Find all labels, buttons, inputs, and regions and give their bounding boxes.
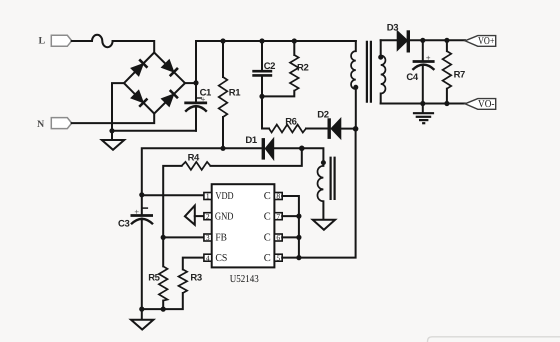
svg-text:GND: GND [215,211,234,222]
wire N terminal to bridge bottom corner [72,114,155,124]
svg-text:VO+: VO+ [478,36,495,47]
svg-text:FB: FB [215,233,227,244]
svg-text:R4: R4 [188,152,200,163]
ground (IC, open triangle) [131,320,153,330]
svg-text:C: C [264,211,271,222]
wire pin 6 to bus [282,236,299,238]
svg-text:D3: D3 [387,23,398,34]
resistor R6 [262,117,329,133]
svg-text:D1: D1 [245,135,257,146]
node bus pin 5 [296,255,301,260]
fuse F (S-curve) [92,35,113,47]
diode D1 [245,135,301,159]
pin 4 [204,253,212,262]
wire FB node to pin 3 [163,236,204,238]
svg-text:+: + [426,53,431,62]
capacitor C2 [252,41,275,129]
svg-text:C: C [264,233,271,244]
wire ground node to C1 bottom [112,109,196,131]
GND arrow symbol at pin 2 [185,206,204,225]
wire pin 5 to primary bottom [282,129,355,258]
node DC+ [193,80,198,85]
node FB / R5 [161,235,166,240]
wire pin 7 to bus [282,215,299,217]
secondary winding [380,40,382,55]
wire fuse to bridge top corner [113,41,155,53]
node aux winding top [299,146,305,152]
node top / C4 [420,38,425,43]
wire aux node down to R4 [211,148,302,166]
ground (aux winding, open triangle) [313,220,335,230]
bridge rectifier diamond wires [124,53,185,114]
node C2/R2 bottom [259,94,264,99]
svg-text:6: 6 [276,233,280,242]
svg-text:4: 4 [206,253,210,262]
pin 6 [274,233,282,242]
core lines [367,41,371,103]
svg-text:R3: R3 [190,272,201,283]
capacitor C4 (electrolytic) [406,40,434,103]
svg-text:C2: C2 [264,61,275,72]
bridge diode bottom-left arm [131,90,148,107]
terminal L [39,35,72,46]
node top rail / R1 [220,38,225,43]
wire DC+ node up to top rail [195,41,197,83]
svg-text:R1: R1 [229,87,241,98]
pin 8 [274,192,282,201]
node top rail / C2 [259,38,264,43]
node AC ground junction [109,128,114,133]
diode D3 [387,23,409,53]
primary polarity dot [353,85,358,90]
node top / R7 [444,38,449,43]
bridge diode bottom-right arm [161,90,178,107]
capacitor C3 (electrolytic) [118,195,153,309]
wire aux node to winding [302,148,324,162]
wire ground node stub down [111,131,113,140]
svg-text:5: 5 [276,253,280,262]
terminal VO- [465,99,496,111]
node D2 / primary bottom [353,126,359,132]
svg-text:+: + [201,95,206,104]
svg-text:C4: C4 [406,72,418,83]
svg-text:VDD: VDD [215,191,234,202]
pin 2 [204,212,212,221]
pin 7 [274,212,282,221]
earth ground (output) [413,104,434,124]
wire VDD node to D1 cathode [142,148,262,195]
svg-text:1: 1 [206,192,210,201]
pin 1 [204,192,212,201]
node top rail / R2 [292,38,297,43]
primary winding [355,41,357,51]
wire bridge left corner to ground node [112,83,124,131]
terminal N [37,118,72,130]
svg-text:8: 8 [276,192,280,201]
wire pin 8 to bus [282,196,299,258]
svg-text:C: C [264,191,271,202]
svg-text:2: 2 [206,212,210,221]
resistor R4 [163,152,210,237]
wire VDD node to pin 1 [142,194,204,196]
wire L terminal to fuse [72,40,92,42]
svg-text:C3: C3 [118,219,129,230]
pin 5 [274,253,282,262]
secondary polarity dot [378,55,383,60]
node bottom rail / C3 [139,307,144,312]
svg-text:U52143: U52143 [230,274,259,285]
svg-text:N: N [37,119,45,130]
pin 3 [204,233,212,242]
node bottom / R7 [444,101,449,106]
svg-text:R6: R6 [285,117,296,128]
capacitor C1 (electrolytic) [184,83,212,131]
terminal VO+ [465,36,496,48]
resistor R3 [142,258,204,310]
aux core lines [331,157,335,200]
bridge diode top-left arm [131,59,148,76]
svg-text:CS: CS [215,253,227,264]
svg-text:D2: D2 [317,110,328,121]
op-amp U1 (IC U52143 body) [212,184,275,285]
resistor R2 [262,41,308,96]
node bottom / C4 [420,101,425,106]
resistor R7 [443,40,465,103]
wire bridge right corner to DC+ node [185,82,196,84]
wire rail to ground [141,309,143,320]
wire D3 to VO+ [408,39,465,41]
ground (input, open triangle) [102,140,124,150]
svg-text:C: C [264,253,271,264]
svg-text:3: 3 [206,233,210,242]
diode D2 [317,110,355,139]
svg-text:7: 7 [276,212,280,221]
svg-text:R2: R2 [297,62,308,73]
resistor R1 [219,41,242,148]
wire secondary bottom rail to VO- [381,103,465,105]
node bottom rail / R5 [161,307,166,312]
svg-text:R5: R5 [148,272,160,283]
bridge diode top-right arm [161,59,178,76]
node bus pin 6 [296,235,301,240]
transformer T1 [351,40,385,129]
auxiliary winding [317,157,334,220]
svg-text:VO-: VO- [478,99,495,110]
node top-rail vertical / D1 wire [220,146,225,151]
wire secondary top to D3 [381,39,398,41]
top rail (DC+) [196,40,356,42]
resistor R5 [148,237,167,309]
node bus pin 7 [296,214,301,219]
svg-text:R7: R7 [454,69,465,80]
auxiliary winding polarity dot [321,160,326,165]
svg-text:L: L [39,36,46,47]
faint watermark box edge bottom right [428,337,560,342]
node VDD / C3 [139,192,144,197]
